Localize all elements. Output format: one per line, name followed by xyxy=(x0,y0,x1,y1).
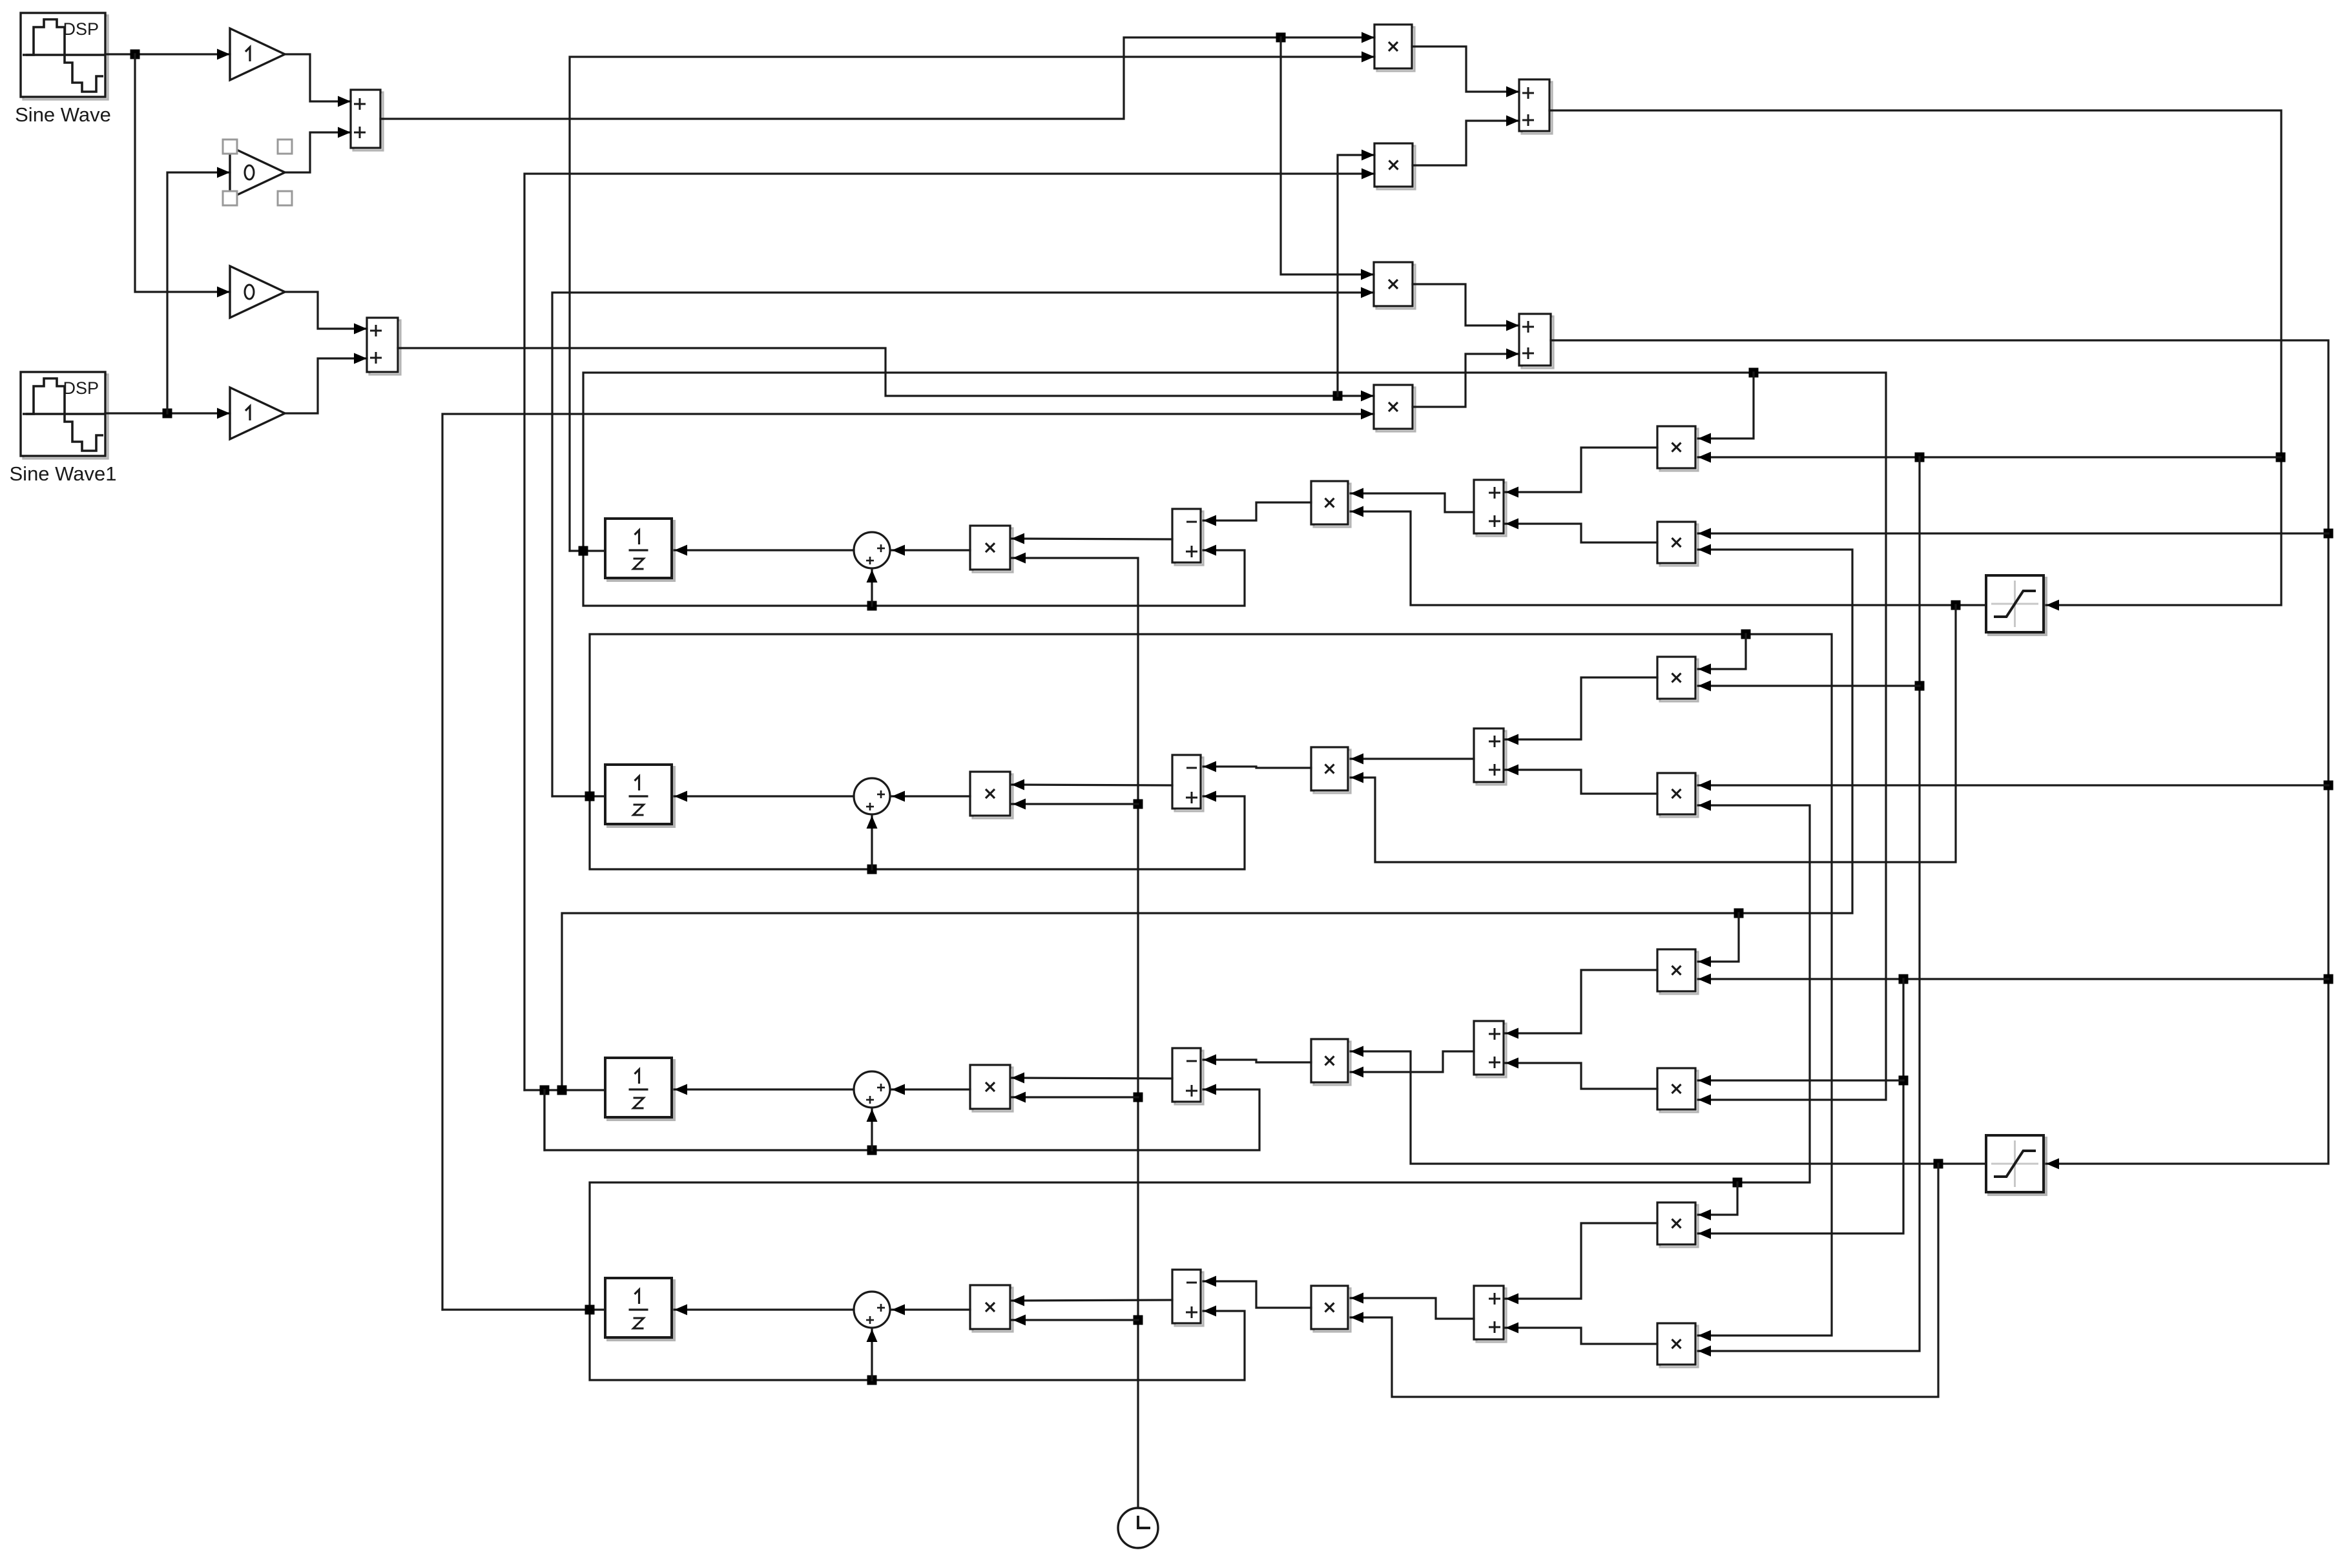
wire state q4 to product P4 input 2 xyxy=(442,409,1374,1310)
wire sum S8 output to product XM4 input 1 xyxy=(1351,1298,1474,1319)
wire product XL1 output to circular sum C1 xyxy=(892,549,970,551)
wire state q4 branch to product XRb2 input 2 xyxy=(590,800,1810,1310)
unit delay block D3 (1/z) xyxy=(605,1058,674,1120)
circular sum block C4 xyxy=(854,1292,890,1328)
sum block A2 xyxy=(367,318,400,375)
arrowhead into C4 bottom input xyxy=(867,1329,878,1342)
node Q junction feeding XRa3 input 1 xyxy=(1734,909,1744,918)
node L junction feeding XRb3 input 1 xyxy=(1899,1076,1909,1086)
arrowhead into C1 bottom input xyxy=(867,570,878,583)
product block XL3 xyxy=(970,1065,1013,1111)
node D3 output junction fb xyxy=(540,1086,550,1095)
svg-text:DSP: DSP xyxy=(63,19,99,39)
wire D1 output stub xyxy=(570,550,605,552)
arrowhead into SB3 plus input xyxy=(1203,1084,1216,1095)
clock block xyxy=(1118,1508,1158,1548)
unit delay block D2 (1/z) xyxy=(605,765,674,827)
wire feedback junction up to circular sum C3 bottom xyxy=(871,1109,873,1150)
node M junction on SAT1 output xyxy=(1951,601,1961,610)
sum block S7 (plus plus) xyxy=(1474,1021,1506,1077)
wire saturation SAT2 output to product XM3 input 1 xyxy=(1351,1046,1986,1164)
node T clock junction row3 xyxy=(1134,1093,1143,1102)
product block XRb3 xyxy=(1657,1068,1698,1112)
circular sum block C2 xyxy=(854,778,890,814)
subtract block SB2 (minus plus) xyxy=(1172,755,1203,811)
wire product XL3 output to circular sum C3 xyxy=(892,1088,970,1090)
node feedback junction to C2 bottom xyxy=(867,865,877,874)
wire node A down to gain G3 xyxy=(135,54,230,298)
arrowhead into C3 right input xyxy=(892,1084,905,1095)
wire unit delay D4 output feedback to subtract SB4 plus input xyxy=(590,1310,1245,1380)
wire D3 feedback drop xyxy=(543,1090,545,1150)
wire state q1 to product P1 input 2 xyxy=(570,52,1374,552)
arrowhead into S8 input 2 xyxy=(1506,1323,1518,1334)
node H junction on A4 net xyxy=(2324,529,2334,539)
wire subtract SB4 output to product XL4 input 1 xyxy=(1011,1300,1172,1301)
wire product XRb4 output to sum S8 input 2 xyxy=(1506,1328,1657,1344)
wire D4 output stub xyxy=(442,1308,605,1310)
sum block A3 xyxy=(1519,79,1552,134)
wire product XRa2 output to sum S6 input 1 xyxy=(1506,677,1657,739)
node D junction on A2 output net xyxy=(1333,391,1343,401)
wire node G to product XRa2 input 2 xyxy=(1698,681,1920,692)
arrowhead into SB4 plus input xyxy=(1203,1306,1216,1317)
circular sum block C3 xyxy=(854,1071,890,1108)
wire node F down to product XRb4 input 2 xyxy=(1698,457,1920,1357)
product block XL4 xyxy=(970,1285,1013,1332)
wire Sine Wave1 to gain G4 xyxy=(105,408,230,419)
arrowhead into D3 input xyxy=(674,1084,687,1095)
arrowhead into D2 input xyxy=(674,791,687,802)
arrowhead into S7 input 1 xyxy=(1506,1028,1518,1039)
wire feedback junction up to circular sum C4 bottom xyxy=(871,1330,873,1380)
wire state q3 to product P2 input 2 xyxy=(524,169,1374,1091)
product block XRb1 xyxy=(1657,522,1698,566)
subtract block SB1 (minus plus) xyxy=(1172,509,1203,565)
wire node S to product XL2 input 2 xyxy=(1011,799,1138,810)
product block XRa4 xyxy=(1657,1202,1698,1247)
arrowhead into C1 right input xyxy=(892,545,905,556)
arrowhead into S8 input 1 xyxy=(1506,1294,1518,1305)
gain block G3 value 0 xyxy=(230,266,285,318)
node P junction feeding XRa2 input 1 xyxy=(1741,630,1751,639)
arrowhead into S6 input 2 xyxy=(1506,765,1518,776)
node feedback junction to C4 bottom xyxy=(867,1376,877,1385)
wire sum A1 output to product P1 input 1 xyxy=(380,32,1374,119)
wire gain G4 to sum A2 input 2 xyxy=(285,353,367,414)
saturation block SAT2 xyxy=(1986,1135,2046,1195)
node B junction on Sine Wave1 output xyxy=(163,409,172,418)
product block P2 xyxy=(1374,143,1415,189)
wire unit delay D3 output feedback to subtract SB3 plus input xyxy=(544,1089,1259,1150)
wire state q2 branch to product XRb4 input 1 xyxy=(590,634,1832,1341)
subtract block SB3 (minus plus) xyxy=(1172,1048,1203,1104)
wire node U to product XL4 input 2 xyxy=(1011,1315,1138,1326)
gain block G1 value 1 xyxy=(230,28,285,80)
sum block S8 (plus plus) xyxy=(1474,1286,1506,1342)
svg-text:Sine Wave: Sine Wave xyxy=(15,103,111,126)
wire subtract SB3 output to product XL3 input 1 xyxy=(1011,1078,1172,1078)
product block XM2 xyxy=(1311,747,1351,793)
product block XM4 xyxy=(1311,1286,1351,1332)
unit delay block D4 (1/z) xyxy=(605,1278,674,1340)
node C junction on A1 output net xyxy=(1276,33,1286,43)
wire subtract SB1 output to product XL1 input 1 xyxy=(1011,539,1172,539)
svg-text:Sine Wave1: Sine Wave1 xyxy=(10,462,117,485)
wire feedback junction up to circular sum C2 bottom xyxy=(871,816,873,869)
arrowhead into SB1 minus input xyxy=(1203,515,1216,526)
product block P3 xyxy=(1374,262,1415,309)
arrowhead into D1 input xyxy=(674,545,687,556)
wire circular sum C4 output to unit delay D4 xyxy=(674,1308,854,1310)
node G junction feeding XRa2 input 2 xyxy=(1915,681,1925,691)
product block XRa1 xyxy=(1657,426,1698,471)
wire clock to product XL1 input 2 xyxy=(1011,553,1138,1509)
wire gain G1 to sum A1 input 1 xyxy=(285,54,351,107)
node N junction on SAT2 output xyxy=(1934,1159,1943,1169)
node U clock junction row4 xyxy=(1134,1315,1143,1325)
wire product XM1 output to subtract SB1 minus input xyxy=(1203,502,1311,521)
wire product P4 output to sum A4 input 2 xyxy=(1413,349,1519,407)
wire sum A3 output to saturation SAT1 input xyxy=(1549,110,2281,611)
product block XRa3 xyxy=(1657,949,1698,994)
wire node M down to product XM2 input 2 xyxy=(1351,605,1956,862)
arrowhead into S5 input 2 xyxy=(1506,519,1518,530)
circular sum block C1 xyxy=(854,532,890,568)
node E junction on A3 net xyxy=(2276,453,2286,462)
node D3 output junction up xyxy=(557,1086,567,1095)
wire D3 output stub xyxy=(524,1089,605,1091)
wire saturation SAT1 output to product XM1 input 2 xyxy=(1351,506,1986,606)
wire node E to product XRa1 input 2 xyxy=(1698,452,2281,463)
product block XL2 xyxy=(970,772,1013,818)
arrowhead into XM4 input 1 xyxy=(1351,1293,1363,1304)
wire sum S7 output to product XM3 input 2 xyxy=(1351,1051,1474,1072)
arrowhead into C4 right input xyxy=(892,1305,905,1315)
node D4 output junction xyxy=(585,1305,595,1315)
saturation block SAT1 xyxy=(1986,575,2046,635)
wire node I to product XRb2 input 1 xyxy=(1698,780,2328,791)
wire circular sum C3 output to unit delay D3 xyxy=(674,1088,854,1090)
wire product XRb2 output to sum S6 input 2 xyxy=(1506,770,1657,794)
arrowhead into XM2 input 1 xyxy=(1351,754,1363,765)
arrowhead into XL4 input 1 xyxy=(1011,1295,1024,1306)
arrowhead into SB2 minus input xyxy=(1203,761,1216,772)
wire node K down to product XRa4 input 2 xyxy=(1698,979,1903,1239)
wire feedback junction up to circular sum C1 bottom xyxy=(871,570,873,606)
sum block A4 xyxy=(1519,314,1553,368)
wire node L to product XRb3 input 1 xyxy=(1698,1075,1903,1086)
source block Sine Wave1 xyxy=(10,372,117,485)
wire sum A2 output to product P4 input 1 xyxy=(398,348,1374,402)
node J junction on A4 net xyxy=(2324,975,2334,984)
product block XL1 xyxy=(970,526,1013,572)
wire D2 output stub xyxy=(552,795,605,797)
wire subtract SB2 output to product XL2 input 1 xyxy=(1011,785,1172,785)
arrowhead into C2 right input xyxy=(892,791,905,802)
gain block G4 value 1 xyxy=(230,387,285,439)
node D1 output junction xyxy=(579,546,588,556)
wire sum A4 output to saturation SAT2 input xyxy=(1551,340,2328,1170)
arrowhead into SB4 minus input xyxy=(1203,1276,1216,1287)
wire node N down to product XM4 input 2 xyxy=(1351,1164,1938,1397)
node F junction on A3 net branch xyxy=(1915,453,1925,462)
wire state q1 branch to product XRb3 input 2 xyxy=(583,373,1886,1106)
wire product XL4 output to circular sum C4 xyxy=(892,1308,970,1310)
wire node C down to product P3 input 1 xyxy=(1281,37,1374,280)
node D2 output junction xyxy=(585,792,595,801)
wire node H to product XRb1 input 1 xyxy=(1698,528,2328,539)
wire product XM3 output to subtract SB3 minus input xyxy=(1203,1060,1311,1062)
wire node D up to product P2 input 1 xyxy=(1338,150,1374,397)
wire node Q down to product XRa3 input 1 xyxy=(1698,913,1739,967)
svg-text:DSP: DSP xyxy=(63,378,99,398)
wire node O down to product XRa1 input 1 xyxy=(1698,373,1754,444)
wire product XRa4 output to sum S8 input 1 xyxy=(1506,1223,1657,1299)
sum block S5 (plus plus) xyxy=(1474,480,1506,536)
arrowhead into S6 input 1 xyxy=(1506,734,1518,745)
wire node B up to gain G2 xyxy=(167,167,230,414)
wire node J to product XRa3 input 2 xyxy=(1698,974,2328,985)
wire product P3 output to sum A4 input 1 xyxy=(1413,284,1519,331)
product block P4 xyxy=(1374,385,1415,431)
product block XRb4 xyxy=(1657,1323,1698,1367)
wire unit delay D1 output feedback to subtract SB1 plus input xyxy=(583,550,1245,606)
arrowhead into XM1 input 1 xyxy=(1351,488,1363,499)
arrowhead into XL1 input 1 xyxy=(1011,533,1024,544)
wire node R down to product XRa4 input 1 xyxy=(1698,1182,1737,1221)
product block XRa2 xyxy=(1657,657,1698,701)
node S clock junction row2 xyxy=(1134,799,1143,809)
wire unit delay D2 output feedback to subtract SB2 plus input xyxy=(590,796,1245,869)
arrowhead into S7 input 2 xyxy=(1506,1058,1518,1069)
arrowhead into C3 bottom input xyxy=(867,1109,878,1122)
wire product P1 output to sum A3 input 1 xyxy=(1412,46,1519,98)
node A junction on Sine Wave output xyxy=(130,50,140,59)
subtract block SB4 (minus plus) xyxy=(1172,1270,1203,1326)
wire state q2 to product P3 input 2 xyxy=(552,287,1374,797)
product block XM1 xyxy=(1311,481,1351,527)
wire product XL2 output to circular sum C2 xyxy=(892,795,970,797)
wire Sine Wave to gain G1 xyxy=(105,49,230,60)
node O junction feeding XRa1 input 1 xyxy=(1749,368,1759,378)
wire product XRb1 output to sum S5 input 2 xyxy=(1506,524,1657,542)
node I junction on A4 net xyxy=(2324,781,2334,790)
arrowhead into C2 bottom input xyxy=(867,816,878,829)
wire product XRa3 output to sum S7 input 1 xyxy=(1506,970,1657,1033)
wire circular sum C1 output to unit delay D1 xyxy=(674,549,854,551)
wire product XM2 output to subtract SB2 minus input xyxy=(1203,767,1311,768)
arrowhead into SB2 plus input xyxy=(1203,791,1216,802)
wire node P down to product XRa2 input 1 xyxy=(1698,634,1746,675)
wire sum S5 output to product XM1 input 1 xyxy=(1351,493,1474,512)
unit delay block D1 (1/z) xyxy=(605,519,674,581)
source block Sine Wave xyxy=(15,13,111,126)
wire node T to product XL3 input 2 xyxy=(1011,1092,1138,1103)
sum block A1 xyxy=(351,90,383,150)
wire product XRb3 output to sum S7 input 2 xyxy=(1506,1063,1657,1089)
wire product XRa1 output to sum S5 input 1 xyxy=(1506,448,1657,492)
wire state q3 branch to product XRb1 input 2 xyxy=(562,544,1852,1091)
wire sum S6 output to product XM2 input 1 xyxy=(1351,758,1474,759)
arrowhead into SB1 plus input xyxy=(1203,545,1216,556)
wire product XM4 output to subtract SB4 minus input xyxy=(1203,1281,1311,1308)
wire circular sum C2 output to unit delay D2 xyxy=(674,795,854,797)
node R junction feeding XRa4 input 1 xyxy=(1733,1178,1743,1188)
node feedback junction to C3 bottom xyxy=(867,1146,877,1155)
arrowhead into XL3 input 1 xyxy=(1011,1073,1024,1084)
arrowhead into SB3 minus input xyxy=(1203,1055,1216,1066)
arrowhead into XL2 input 1 xyxy=(1011,779,1024,790)
wire gain G3 to sum A2 input 1 xyxy=(285,292,367,335)
gain block G2 value 0 (selected) xyxy=(223,139,292,205)
wire gain G2 to sum A1 input 2 xyxy=(285,127,351,173)
wire product P2 output to sum A3 input 2 xyxy=(1413,116,1519,166)
arrowhead into XM3 input 2 xyxy=(1351,1067,1363,1078)
arrowhead into S5 input 1 xyxy=(1506,487,1518,498)
product block XRb2 xyxy=(1657,773,1698,817)
node feedback junction to C1 bottom xyxy=(867,601,877,611)
arrowhead into D4 input xyxy=(674,1305,687,1315)
product block P1 xyxy=(1374,25,1414,71)
sum block S6 (plus plus) xyxy=(1474,728,1506,785)
node K junction feeding XRb3 and XRa4 xyxy=(1899,975,1909,984)
product block XM3 xyxy=(1311,1039,1351,1085)
